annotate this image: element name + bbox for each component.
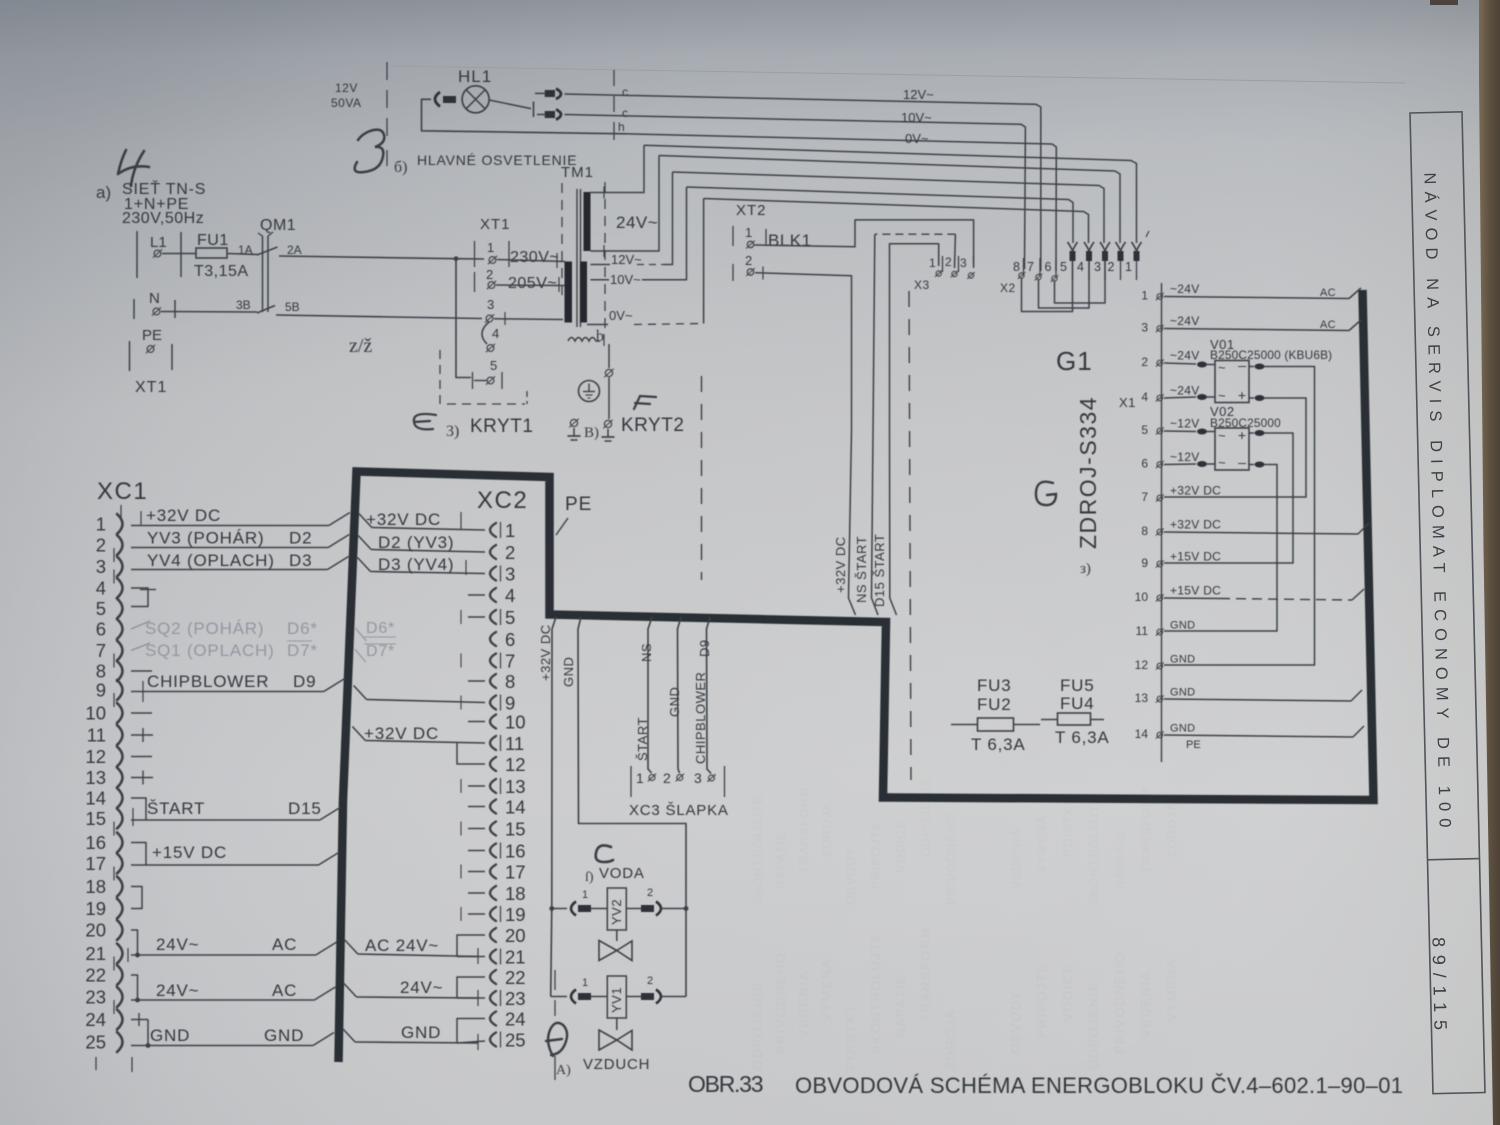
- svg-text:10: 10: [85, 703, 106, 724]
- svg-text:a): a): [96, 183, 111, 202]
- svg-text:7: 7: [96, 640, 106, 661]
- svg-text:VODICE: VODICE: [894, 820, 908, 873]
- svg-text:21: 21: [85, 943, 106, 964]
- svg-text:NS: NS: [639, 643, 654, 662]
- XC2 pin 17 stub: [468, 871, 485, 873]
- XC2 pin 25 bar: [500, 1032, 502, 1048]
- wire XT1-3 to primary bottom: [494, 318, 563, 321]
- svg-text:25: 25: [85, 1032, 106, 1053]
- ground symbol under right terminal: [607, 429, 609, 437]
- svg-text:~12V: ~12V: [1170, 417, 1200, 431]
- svg-text:19: 19: [505, 904, 526, 925]
- wire V01 plus output to X1-7: [1249, 397, 1254, 399]
- svg-text:1: 1: [1141, 289, 1148, 303]
- svg-text:AC 24V~: AC 24V~: [365, 936, 439, 955]
- XC2 pin 17: [490, 865, 496, 879]
- svg-text:+32V DC: +32V DC: [1170, 518, 1221, 532]
- svg-text:4: 4: [1077, 260, 1084, 274]
- X2 contact pin 2: [1116, 242, 1126, 251]
- svg-text:GND: GND: [401, 1023, 441, 1042]
- wire X1-14 GND PE output: [1164, 735, 1353, 737]
- X2 pin 7 terminal: [1036, 274, 1041, 279]
- wire lamp right to switch: [489, 100, 531, 109]
- svg-text:+15V DC: +15V DC: [1170, 550, 1221, 564]
- svg-text:2: 2: [647, 887, 653, 899]
- svg-text:22: 22: [85, 965, 106, 986]
- svg-text:SQ2 (POHÁR): SQ2 (POHÁR): [145, 619, 264, 638]
- svg-text:2: 2: [1108, 260, 1115, 274]
- svg-text:b: b: [596, 328, 604, 345]
- svg-text:PRIVODNEHO: PRIVODNEHO: [773, 952, 788, 1054]
- wire XC1-17 +15V DC: [131, 864, 318, 866]
- svg-text:15: 15: [505, 819, 526, 840]
- wire CHIPBLOWER column to XC3-3: [707, 617, 712, 774]
- svg-text:XT1: XT1: [135, 379, 167, 396]
- handwritten section letter C: [596, 845, 613, 862]
- jumper X2 pin 7 to pin 4: [1039, 261, 1090, 308]
- svg-text:–: –: [1238, 454, 1246, 470]
- svg-text:PRIPOJTE: PRIPOJTE: [1034, 962, 1049, 1038]
- wire X1-5 to V02: [1164, 430, 1196, 433]
- screen terminal circle-slash: [605, 369, 612, 376]
- upper plug of lamp switch: [535, 92, 545, 94]
- svg-text:14: 14: [1135, 727, 1149, 741]
- XC2 pin 9: [490, 696, 496, 710]
- XC2 pin 23 bar: [500, 990, 502, 1006]
- XC2 pin 3 bar: [500, 566, 502, 582]
- svg-text:XC2: XC2: [477, 487, 528, 514]
- svg-text:FU5: FU5: [1060, 676, 1095, 695]
- handwritten F mark: [634, 396, 656, 409]
- XC2 pin 24: [490, 1012, 496, 1026]
- dashed boundary lamp block right: [613, 70, 615, 86]
- svg-text:ODPOJENIE: ODPOJENIE: [919, 777, 933, 857]
- valve YV2 coil row: [552, 908, 567, 910]
- svg-text:13: 13: [1135, 691, 1149, 705]
- svg-text:OBR.33: OBR.33: [688, 1071, 764, 1097]
- svg-text:X3: X3: [914, 278, 930, 292]
- svg-text:12: 12: [1135, 658, 1149, 672]
- svg-text:3: 3: [505, 564, 515, 585]
- XC1 pin 23 bar: [113, 1000, 115, 1014]
- jumper XC1 pins 16-17: [131, 843, 146, 866]
- svg-text:19: 19: [85, 898, 106, 919]
- svg-text:24: 24: [505, 1009, 526, 1030]
- jumper XC1 pins 14-15: [131, 798, 146, 820]
- svg-text:YV1: YV1: [609, 987, 624, 1013]
- svg-text:ZDROJA: ZDROJA: [943, 1009, 958, 1070]
- XC2 pin 5: [490, 610, 496, 624]
- wire 12V tap: [591, 264, 611, 266]
- wire X3 pin1 to D15 START line: [890, 244, 939, 430]
- svg-text:8: 8: [96, 661, 106, 682]
- wire XC2-2 D2 YV3: [358, 536, 371, 550]
- wire X1-2 to V01: [1164, 363, 1196, 364]
- wire screen to earth terminal: [608, 344, 610, 368]
- dashed boundary at x=701: [701, 376, 703, 580]
- lamp HL1 symbol: [462, 86, 489, 113]
- svg-text:ſ): ſ): [585, 870, 594, 885]
- svg-text:12V: 12V: [335, 81, 358, 95]
- svg-text:11: 11: [1136, 624, 1149, 638]
- wire X1-1 ~24V to AC output: [1164, 297, 1349, 299]
- svg-text:PRIPOJTE: PRIPOJTE: [869, 821, 883, 889]
- svg-text:0V~: 0V~: [609, 308, 633, 323]
- wire XC2-9 chipblower: [354, 686, 367, 700]
- svg-text:3: 3: [1094, 260, 1101, 274]
- XC2 pin 8 stub: [468, 680, 485, 682]
- svg-text:1: 1: [487, 240, 494, 255]
- dark table edge at right side of photo: [1479, 0, 1500, 1125]
- svg-text:SKONTROLUJTE: SKONTROLUJTE: [751, 795, 765, 905]
- PE chamfer tick: [556, 518, 568, 535]
- KRYT2 terminal left circle-slash: [570, 419, 577, 426]
- svg-text:2: 2: [505, 542, 515, 563]
- jumper XC2 pins 24-25: [457, 1019, 485, 1044]
- XC1 pin 21 bar: [113, 957, 115, 971]
- electrostatic screen squiggle: [568, 338, 600, 342]
- lamp switch pivot: [533, 102, 535, 118]
- XC2 pin 10 stub: [468, 721, 485, 723]
- wire BLK1 pin1 to X3 pin3: [755, 220, 974, 268]
- svg-text:c: c: [622, 106, 628, 120]
- svg-text:1: 1: [505, 520, 515, 541]
- wire 24V winding bottom terminal: [591, 156, 660, 252]
- jumper XC1 pins 22-23: [131, 975, 138, 1000]
- svg-text:ZDROJ-S334: ZDROJ-S334: [1075, 396, 1101, 549]
- svg-text:18: 18: [85, 876, 106, 897]
- valve YV2 body (bowtie): [616, 930, 618, 941]
- wire X1-3 ~24V to AC output: [1164, 329, 1349, 331]
- svg-text:VZDUCH: VZDUCH: [583, 1056, 650, 1073]
- svg-text:21: 21: [505, 947, 526, 968]
- svg-text:ZDROJA: ZDROJA: [1165, 802, 1179, 857]
- svg-text:24V~: 24V~: [156, 981, 199, 1000]
- XC1 pin 2 bar: [113, 548, 115, 562]
- svg-text:3: 3: [694, 770, 702, 786]
- terminal XT1 phase L1: [136, 231, 138, 278]
- fuse FU2/FU3 symbol: [951, 724, 977, 726]
- svg-text:7: 7: [505, 651, 515, 672]
- svg-text:+32V DC: +32V DC: [1170, 484, 1221, 498]
- faded wire XC2-6 D6: [355, 628, 366, 641]
- svg-text:HLAVNÉ OSVETLENIE: HLAVNÉ OSVETLENIE: [417, 152, 577, 168]
- svg-text:5: 5: [490, 358, 497, 373]
- svg-text:YV4 (OPLACH): YV4 (OPLACH): [147, 551, 275, 570]
- XC2 pin 13 bar: [500, 778, 502, 794]
- jumper XC2 pins 22-23: [457, 977, 485, 998]
- svg-text:L1: L1: [150, 234, 167, 251]
- svg-text:25: 25: [505, 1030, 526, 1051]
- svg-text:1: 1: [929, 256, 936, 270]
- svg-text:12: 12: [505, 754, 526, 775]
- svg-text:4: 4: [492, 326, 499, 341]
- svg-text:24V~: 24V~: [616, 213, 658, 232]
- svg-text:VODA: VODA: [599, 865, 645, 882]
- bleed-through text from reverse page: [750, 777, 1179, 1070]
- dashed boundary lamp block left: [386, 62, 388, 80]
- svg-text:D2 (YV3): D2 (YV3): [378, 533, 454, 552]
- svg-text:ŠTART: ŠTART: [147, 799, 205, 818]
- svg-text:2: 2: [96, 535, 106, 556]
- svg-text:AC: AC: [1320, 319, 1336, 331]
- wire 24V winding top terminal: [591, 145, 645, 192]
- svg-text:–: –: [1238, 357, 1246, 373]
- svg-text:3: 3: [487, 297, 494, 312]
- svg-text:10V~: 10V~: [610, 272, 641, 287]
- svg-text:3: 3: [1141, 321, 1148, 335]
- switch SQ1 at XC1-7 (faded): [131, 643, 150, 651]
- XC2 pin 7: [490, 654, 496, 668]
- svg-text:YV3 (POHÁR): YV3 (POHÁR): [147, 529, 264, 548]
- X2 contact pin 3: [1100, 242, 1110, 251]
- svg-text:230V,50Hz: 230V,50Hz: [122, 210, 204, 227]
- thick boundary frame of energoblok: [339, 290, 1374, 1062]
- svg-text:1: 1: [745, 225, 752, 240]
- dashed boundary TM1 right: [604, 182, 606, 332]
- faint sheet border line (top): [388, 66, 1405, 83]
- svg-text:20: 20: [85, 920, 106, 941]
- wire X1-8 +32V DC output: [1164, 532, 1358, 534]
- svg-text:14: 14: [505, 797, 526, 818]
- svg-text:14: 14: [85, 788, 106, 809]
- svg-text:X2: X2: [1000, 281, 1016, 295]
- connector XC3 terminal bars: [630, 766, 632, 797]
- svg-text:NS ŠTART: NS ŠTART: [854, 536, 869, 603]
- svg-text:16: 16: [85, 832, 106, 853]
- svg-text:c: c: [622, 85, 628, 99]
- svg-text:~: ~: [1218, 455, 1226, 470]
- svg-text:AC: AC: [1320, 287, 1336, 299]
- switch SQ2 at XC1-6 (faded): [131, 621, 150, 629]
- junction +32V at YV2 row: [549, 906, 554, 911]
- stub XC1-24 plus: [131, 1019, 148, 1021]
- XC2 pin 7 bar: [500, 653, 502, 669]
- XC2 pin 22: [490, 970, 496, 984]
- svg-text:SKONTROLUJTE: SKONTROLUJTE: [868, 932, 883, 1054]
- wire XC1-3 YV4 OPLACH D3: [131, 569, 328, 571]
- svg-text:+32V DC: +32V DC: [366, 510, 441, 529]
- handwritten section letter A: [118, 150, 149, 186]
- svg-text:PRIVODNEHO: PRIVODNEHO: [1112, 952, 1127, 1054]
- svg-text:5: 5: [96, 598, 106, 619]
- svg-text:CHIPBLOWER: CHIPBLOWER: [147, 672, 269, 691]
- jumper XC1 pins 18-19: [131, 887, 142, 909]
- jumper XC1 pins 20-21: [131, 930, 138, 955]
- svg-text:2A: 2A: [287, 243, 302, 257]
- wire GND column to XC3-2: [678, 617, 682, 773]
- XC2 pin 11 bar: [500, 735, 502, 751]
- svg-text:205V~: 205V~: [508, 275, 557, 292]
- wire V02 plus output to X1-9: [1249, 432, 1254, 434]
- wire lamp 0V~ to X2 pin 6: [626, 134, 1056, 271]
- svg-text:OBVODY: OBVODY: [844, 846, 858, 905]
- svg-text:VYMENA: VYMENA: [819, 958, 834, 1022]
- svg-text:POISTKY: POISTKY: [1061, 797, 1075, 857]
- svg-text:OBVODY: OBVODY: [1008, 989, 1023, 1054]
- svg-text:17: 17: [505, 862, 526, 883]
- XC2 pin 15 stub: [468, 828, 485, 830]
- svg-text:KRYT1: KRYT1: [470, 416, 533, 437]
- XC2 pin 6: [490, 632, 496, 646]
- stub XC1-11 plus: [131, 734, 153, 736]
- svg-text:D6*: D6*: [366, 620, 395, 637]
- XC2 pin 16 stub: [468, 850, 485, 852]
- wire XC1-23 24V~ AC: [131, 999, 314, 1001]
- svg-text:VYMENA: VYMENA: [1035, 815, 1049, 873]
- XC2 pin 19 stub: [468, 913, 485, 915]
- wire START column to XC3-1: [648, 617, 652, 773]
- svg-text:VEDENIA: VEDENIA: [796, 970, 811, 1038]
- svg-text:+32V DC: +32V DC: [538, 624, 553, 681]
- protective earth symbol in circle: [579, 381, 600, 402]
- svg-text:2: 2: [647, 975, 653, 987]
- svg-text:+: +: [1238, 387, 1246, 403]
- XC2 pin 20: [490, 928, 496, 942]
- wire XC1-1 +32V DC: [131, 525, 329, 527]
- svg-text:11: 11: [505, 733, 524, 754]
- jumper X2 pin 6 to pin 3: [1055, 261, 1106, 303]
- svg-text:20: 20: [505, 925, 526, 946]
- jumper XC2 pins 20-21: [457, 935, 485, 957]
- wire X3 pin2 to NS START line: [954, 234, 957, 268]
- svg-text:12: 12: [85, 746, 106, 767]
- svg-text:1: 1: [1125, 260, 1132, 274]
- svg-text:AC: AC: [272, 981, 297, 1000]
- svg-text:3B: 3B: [236, 298, 251, 312]
- svg-text:б): б): [394, 159, 407, 176]
- terminal XT1 protective earth PE: [129, 341, 131, 371]
- svg-text:50VA: 50VA: [331, 96, 361, 110]
- svg-text:N: N: [149, 290, 160, 307]
- rectifier V01 body: [1215, 361, 1249, 403]
- svg-text:ODPOJENIE: ODPOJENIE: [750, 981, 765, 1070]
- svg-text:GND: GND: [561, 657, 576, 687]
- svg-text:OBVODOVÁ SCHÉMA ENERGOBLOKU ČV: OBVODOVÁ SCHÉMA ENERGOBLOKU ČV.4–602.1–9…: [795, 1073, 1403, 1098]
- XC2 pin 5 bar: [500, 609, 502, 625]
- svg-text:2: 2: [945, 255, 952, 269]
- svg-text:3): 3): [446, 423, 459, 440]
- svg-text:7: 7: [1141, 490, 1148, 504]
- wire XT1-2 to primary tap: [496, 284, 565, 287]
- X2 pin 6 terminal: [1052, 276, 1057, 281]
- wire X1-4 to V01: [1164, 397, 1196, 398]
- svg-text:~: ~: [1218, 388, 1226, 403]
- svg-text:D3 (YV4): D3 (YV4): [378, 555, 454, 574]
- XC2 pin 19 bar: [500, 906, 502, 922]
- XC2 pin 14: [490, 800, 496, 814]
- wire down to XT1 pin5: [456, 259, 471, 378]
- svg-text:D3: D3: [289, 551, 312, 570]
- svg-text:D2: D2: [289, 529, 312, 548]
- XC2 pin 9 bar: [500, 695, 502, 711]
- wire 24V-bottom to X2 pin 2: [659, 156, 1120, 244]
- wire 10V tap: [591, 279, 610, 281]
- svg-text:T3,15A: T3,15A: [194, 263, 249, 280]
- svg-text:230V~: 230V~: [510, 249, 559, 266]
- wire 0V tap to X2 pin 4: [704, 199, 1089, 244]
- stub XC1-8: [131, 670, 152, 672]
- X2 contact pin 4: [1084, 242, 1094, 251]
- svg-text:24V~: 24V~: [400, 978, 443, 997]
- svg-text:XT1: XT1: [480, 216, 511, 233]
- wire N to switch: [161, 311, 257, 314]
- sidebar title box: [1409, 112, 1485, 1094]
- svg-text:D6*: D6*: [287, 619, 318, 638]
- XC2 pin 1: [490, 523, 496, 537]
- svg-text:4: 4: [1141, 390, 1148, 404]
- svg-text:2: 2: [486, 267, 493, 282]
- handwritten section letter B: [355, 130, 385, 173]
- svg-text:ŠTART: ŠTART: [635, 717, 650, 761]
- X2 contact pin 5: [1068, 242, 1078, 251]
- svg-text:+15V DC: +15V DC: [152, 843, 227, 862]
- svg-text:PE: PE: [1186, 739, 1201, 751]
- XC2 pin 14 stub: [468, 806, 485, 808]
- XC2 pin 13 stub: [468, 785, 485, 787]
- svg-text:GND: GND: [1170, 723, 1195, 735]
- svg-text:CHIPBLOWER: CHIPBLOWER: [693, 672, 708, 764]
- svg-text:~24V: ~24V: [1170, 314, 1200, 328]
- svg-text:11: 11: [87, 725, 106, 746]
- wire 10V tap to X2 pin 5: [687, 187, 1074, 243]
- wire V02 minus output to X1-11: [1249, 464, 1254, 466]
- wire X1-10 +15V DC output: [1164, 597, 1220, 600]
- ground symbol under left terminal: [573, 428, 575, 436]
- dashed boundary TM1 left: [561, 183, 563, 302]
- svg-text:D15 ŠTART: D15 ŠTART: [872, 534, 887, 607]
- wire 24V-top to X2 pin 1: [644, 145, 1137, 243]
- XC2 pin 23: [490, 991, 496, 1005]
- XC2 pin 10: [490, 715, 496, 729]
- XC1 pin 3 bar: [113, 570, 115, 584]
- wire XC2-24/25 GND: [342, 1028, 355, 1042]
- jumper XC1 pins 4-5: [131, 588, 148, 607]
- dashed cable boundary at x=909: [909, 291, 911, 780]
- svg-text:VODICE: VODICE: [1060, 963, 1075, 1022]
- junction GND at YV2 row: [684, 906, 689, 911]
- wire XC1-2 YV3 POHAR D2: [131, 547, 328, 549]
- svg-text:3: 3: [96, 556, 106, 577]
- svg-text:17: 17: [85, 853, 106, 874]
- svg-text:8: 8: [1013, 260, 1020, 274]
- svg-text:~: ~: [1218, 428, 1226, 443]
- svg-text:з): з): [1080, 561, 1091, 577]
- svg-text:15: 15: [85, 808, 106, 829]
- wire lamp 10V~ to X2 pin 8: [565, 115, 1026, 270]
- XC2 pin 16: [490, 844, 496, 858]
- svg-text:VEDENIA: VEDENIA: [1009, 828, 1023, 889]
- wire XC2-3 D3 YV4: [357, 558, 370, 572]
- svg-text:GND: GND: [150, 1026, 190, 1045]
- svg-text:1: 1: [582, 889, 588, 901]
- XC2 pin 15: [490, 822, 496, 836]
- svg-text:D9: D9: [697, 639, 712, 657]
- X2 pin separator bars: [1023, 258, 1025, 276]
- svg-text:13: 13: [85, 767, 106, 788]
- stub XC1-13 plus: [131, 777, 153, 779]
- svg-text:D9: D9: [293, 672, 316, 691]
- svg-text:D7*: D7*: [366, 643, 395, 660]
- svg-text:6: 6: [505, 629, 515, 650]
- valve YV1 coil row: [551, 996, 567, 998]
- svg-text:TRANSFORM: TRANSFORM: [797, 786, 811, 873]
- svg-text:z/ž: z/ž: [349, 335, 372, 357]
- stub XC1-12: [131, 756, 152, 758]
- svg-text:NAPATIE: NAPATIE: [1113, 831, 1127, 889]
- svg-text:B): B): [584, 425, 599, 441]
- jumper arc XT1 pin3 to pin4: [482, 322, 489, 344]
